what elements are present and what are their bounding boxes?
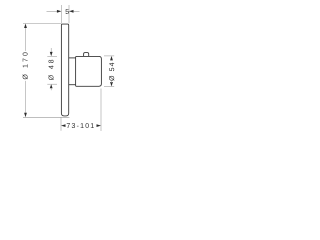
node plate: escutcheon (side view) bbox=[61, 24, 68, 116]
wire: neck top line bbox=[69, 57, 76, 59]
node dim-170 bottom arrow bbox=[24, 113, 27, 118]
node dim-54 bottom arrow (pointing down) bbox=[110, 82, 113, 87]
wire: dim-170 top extension line bbox=[23, 23, 61, 25]
wire: dim-5 right extension line bbox=[68, 5, 70, 23]
node dim-170 top arrow bbox=[24, 24, 27, 29]
wire: dim-54 bottom tick bbox=[104, 86, 114, 88]
wire: dim-73-101 right extension line bbox=[100, 89, 102, 132]
node dim-54 label "O 54" bbox=[109, 63, 114, 81]
wire: dim-170 bottom extension line bbox=[23, 116, 69, 118]
wire: dim-48 top tail line bbox=[50, 48, 52, 52]
wire: dim-54 lower line segment bbox=[111, 81, 113, 83]
node dim-73-101 left arrow bbox=[61, 124, 66, 127]
wire: dim-48 bottom tail line bbox=[50, 88, 52, 90]
wire: neck bottom line bbox=[69, 84, 76, 86]
node dim-73-101 label "73-101" bbox=[67, 123, 94, 128]
node dim-5 label "5" bbox=[65, 9, 68, 14]
node dim-5 right arrow bbox=[69, 10, 74, 13]
node dim-170 label "O 170" bbox=[23, 52, 28, 79]
node knob: handle body (side view) bbox=[76, 56, 102, 86]
node dim-48 label "O 48" bbox=[48, 60, 53, 80]
wire: dim-54 top tick bbox=[104, 55, 114, 57]
wire: dim-48 top tick bbox=[47, 55, 57, 57]
wire: dim-48 bottom tick bbox=[47, 83, 57, 85]
wire: dim-170 lower dimension line bbox=[25, 81, 27, 114]
node dim-48 top arrow (pointing down) bbox=[50, 52, 53, 56]
node dim-5 left arrow bbox=[57, 10, 62, 13]
wire: dim-5 right dimension line bbox=[73, 10, 79, 12]
node dim-73-101 right arrow bbox=[97, 124, 102, 127]
node dim-48 bottom arrow (pointing up) bbox=[50, 84, 53, 88]
wire: dim-170 upper dimension line bbox=[25, 27, 27, 51]
node dim-54 top arrow (pointing up) bbox=[110, 56, 113, 61]
wire: dim-5 left extension line bbox=[60, 5, 62, 23]
wire: dim-73-101 left extension line bbox=[60, 118, 62, 131]
node bump: safety button on knob top bbox=[84, 53, 89, 57]
wire: dim-5 left dimension line bbox=[47, 10, 58, 12]
